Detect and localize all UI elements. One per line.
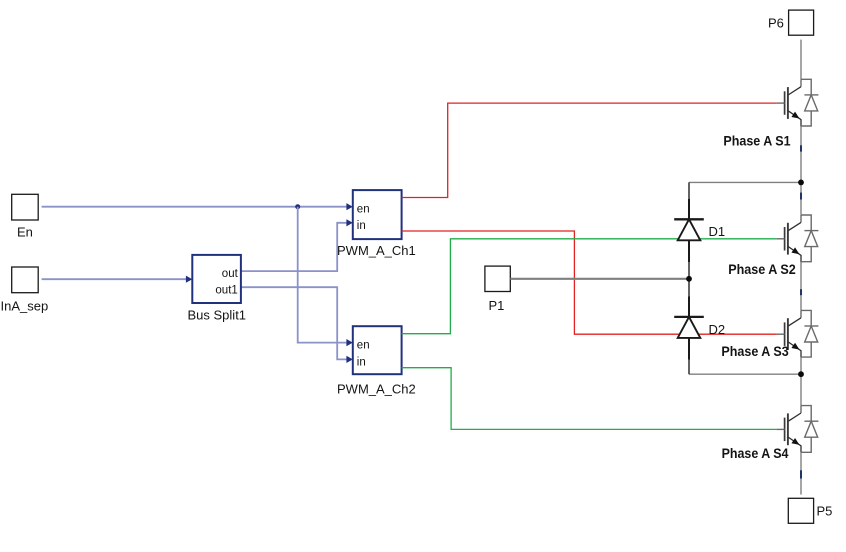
terminal dash S1 emitter bbox=[800, 145, 802, 151]
block PWM_A_Ch1 bbox=[337, 190, 416, 258]
wire rail S1 to S2 bbox=[800, 126, 802, 215]
svg-text:Bus Split1: Bus Split1 bbox=[188, 308, 247, 323]
port P5 bbox=[788, 498, 832, 523]
block PWM_A_Ch2 bbox=[337, 326, 416, 396]
svg-text:en: en bbox=[357, 204, 370, 216]
wire Bus Split1 out to PWM_A_Ch1 in bbox=[241, 223, 349, 271]
wire red PWM_A_Ch1 to S3 gate bbox=[402, 231, 777, 334]
wire rail S4 to P5 bbox=[800, 452, 802, 494]
svg-text:P5: P5 bbox=[817, 504, 833, 519]
wire rail P6 to S1 bbox=[800, 40, 802, 80]
svg-text:D1: D1 bbox=[709, 224, 726, 239]
svg-text:PWM_A_Ch2: PWM_A_Ch2 bbox=[337, 382, 416, 397]
wire green PWM_A_Ch2 to S4 gate bbox=[402, 368, 777, 430]
svg-text:Phase A S1: Phase A S1 bbox=[723, 133, 790, 149]
transistor S4 IGBT bbox=[722, 406, 819, 461]
svg-text:in: in bbox=[357, 357, 366, 369]
svg-text:Phase A S3: Phase A S3 bbox=[721, 343, 788, 359]
wire clamp top branch bbox=[689, 181, 801, 183]
wire green PWM_A_Ch2 to S2 gate bbox=[402, 239, 777, 334]
diode D2 bbox=[674, 297, 725, 360]
wire En signal bbox=[42, 206, 349, 208]
svg-text:InA_sep: InA_sep bbox=[1, 299, 49, 314]
wire red PWM_A_Ch1 to S1 gate bbox=[402, 103, 777, 197]
transistor S3 IGBT bbox=[721, 310, 818, 358]
transistor S2 IGBT bbox=[728, 215, 818, 277]
svg-text:en: en bbox=[357, 340, 370, 352]
port InA_sep bbox=[1, 267, 49, 314]
wire clamp bottom branch bbox=[689, 373, 801, 375]
svg-text:P6: P6 bbox=[768, 16, 784, 31]
wire InA_sep to Bus Split1 bbox=[42, 278, 189, 280]
port En bbox=[12, 194, 39, 239]
svg-text:in: in bbox=[357, 220, 366, 232]
wire Bus Split1 out1 to PWM_A_Ch2 in bbox=[241, 287, 349, 359]
wire clamp vertical chain bbox=[688, 182, 690, 374]
svg-text:Phase A S4: Phase A S4 bbox=[722, 445, 789, 461]
junction clamp node P1 bbox=[686, 276, 692, 282]
svg-text:Phase A S2: Phase A S2 bbox=[728, 261, 796, 277]
transistor S1 IGBT bbox=[723, 79, 818, 148]
svg-text:En: En bbox=[17, 225, 33, 240]
wire rail S3 to S4 bbox=[800, 357, 802, 406]
wire P1 to clamp node bbox=[510, 278, 689, 280]
svg-text:out: out bbox=[222, 268, 239, 280]
svg-text:PWM_A_Ch1: PWM_A_Ch1 bbox=[337, 243, 416, 258]
block Bus Split1 bbox=[186, 255, 246, 323]
junction bottom rail bbox=[798, 371, 804, 377]
diode D1 bbox=[674, 199, 725, 262]
terminal dash S4 emitter bbox=[800, 470, 802, 478]
svg-text:P1: P1 bbox=[489, 298, 505, 313]
junction En branch bbox=[295, 204, 300, 209]
port P1 bbox=[485, 266, 510, 313]
port P6 bbox=[768, 10, 814, 35]
wire rail S2 to S3 bbox=[800, 262, 802, 311]
terminal dash S3 collector bbox=[800, 289, 802, 295]
wire En branch to PWM_A_Ch2 en bbox=[298, 207, 349, 343]
junction top rail bbox=[798, 180, 804, 186]
terminal dash S2 collector bbox=[800, 193, 802, 200]
svg-text:D2: D2 bbox=[709, 322, 726, 337]
svg-text:out1: out1 bbox=[215, 284, 237, 296]
